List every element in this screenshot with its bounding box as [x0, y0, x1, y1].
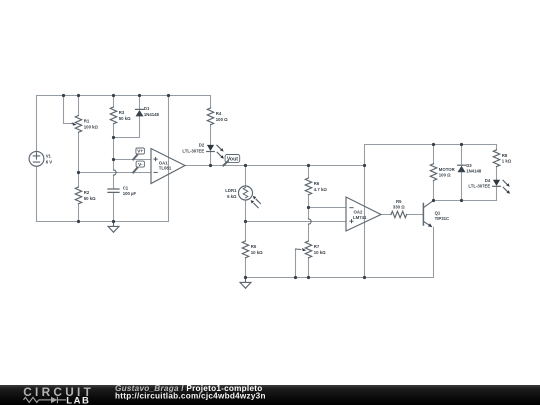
- resistor R5 10k: [242, 241, 248, 258]
- wire R3 leads: [113, 96, 115, 138]
- svg-text:1 kΩ: 1 kΩ: [502, 159, 512, 164]
- wire V1 column: [36, 96, 38, 222]
- svg-text:1N4148: 1N4148: [466, 169, 482, 174]
- wire OA2 power column: [364, 145, 366, 278]
- svg-text:Vout: Vout: [227, 157, 238, 163]
- potentiometer R1: [72, 116, 82, 133]
- svg-text:100 Ω: 100 Ω: [216, 117, 228, 122]
- wire column between R6 R7: [308, 208, 310, 242]
- svg-text:OA2: OA2: [354, 209, 363, 214]
- wire OA2 noninverting input: [246, 221, 347, 223]
- svg-text:100 µF: 100 µF: [123, 191, 137, 196]
- potentiometer R7: [296, 241, 312, 258]
- svg-text:LM741: LM741: [353, 215, 367, 220]
- footer bar: [0, 385, 540, 405]
- wire column above C1: [113, 160, 115, 190]
- wire R4 leads: [210, 96, 212, 145]
- motor MOTOR: [430, 164, 436, 181]
- wire Vout net: [185, 165, 365, 167]
- wire D1 leads: [114, 96, 140, 138]
- svg-text:LTL-307EE: LTL-307EE: [182, 148, 204, 153]
- wire OA1 noninverting input: [114, 159, 152, 161]
- wire D4 bottom lead: [496, 186, 498, 200]
- svg-text:R2: R2: [84, 190, 90, 195]
- svg-text:50 kΩ: 50 kΩ: [119, 116, 131, 121]
- svg-text:4.7 kΩ: 4.7 kΩ: [314, 187, 328, 192]
- svg-text:R3: R3: [119, 110, 125, 115]
- svg-text:R6: R6: [314, 181, 320, 186]
- wire R8 leads: [496, 145, 498, 180]
- svg-text:6 V: 6 V: [46, 159, 53, 164]
- svg-text:OA1: OA1: [159, 160, 168, 165]
- ground right: [240, 278, 251, 289]
- svg-text:100 kΩ: 100 kΩ: [84, 124, 99, 129]
- LED D2: [207, 145, 224, 159]
- wire R6 leads: [308, 166, 310, 208]
- svg-text:MOTOR: MOTOR: [439, 167, 456, 172]
- svg-text:TIP31C: TIP31C: [435, 216, 450, 221]
- wire C1 bottom lead: [113, 192, 115, 221]
- wire V- net: [79, 172, 152, 174]
- resistor R5 330: [391, 211, 407, 217]
- svg-text:V-: V-: [138, 162, 143, 167]
- wire hop over noninverting wire: [309, 219, 312, 224]
- diode D1: [136, 109, 144, 116]
- OA1 minus mark: [154, 171, 158, 173]
- wire bottom rail right: [246, 277, 434, 279]
- transistor Q1: [423, 201, 433, 228]
- logo doodle diode: [51, 397, 57, 403]
- net flag V-: [133, 161, 144, 172]
- svg-text:100 Ω: 100 Ω: [439, 173, 451, 178]
- svg-text:LTL-307EE: LTL-307EE: [468, 184, 490, 189]
- svg-text:LDR1: LDR1: [225, 188, 237, 193]
- wire R5 leads: [245, 222, 247, 278]
- svg-text:50 kΩ: 50 kΩ: [84, 196, 96, 201]
- svg-text:http://circuitlab.com/cjc4wbd4: http://circuitlab.com/cjc4wbd4wzy3n: [115, 392, 266, 401]
- ground left: [108, 222, 119, 233]
- net flag Vout: [223, 155, 239, 166]
- resistor R6: [305, 178, 311, 195]
- LED D4: [493, 180, 510, 194]
- svg-text:D4: D4: [485, 178, 491, 183]
- svg-text:R8: R8: [502, 153, 508, 158]
- logo doodle resistor: [24, 397, 67, 404]
- voltage source V1: [29, 151, 44, 166]
- wire hop over V- wire: [114, 170, 117, 175]
- net flag V+: [133, 148, 144, 160]
- wire LDR1 leads: [245, 166, 247, 222]
- wire top rail right: [365, 144, 497, 146]
- OA2 plus mark: [349, 219, 353, 223]
- svg-text:330 Ω: 330 Ω: [393, 205, 405, 210]
- wire R7 bottom lead: [308, 258, 310, 278]
- svg-text:D2: D2: [199, 143, 205, 148]
- svg-text:V1: V1: [46, 154, 52, 159]
- wire R1 wiper: [64, 96, 72, 124]
- resistor R8: [493, 150, 499, 167]
- svg-text:D3: D3: [466, 163, 472, 168]
- wire R5 330 leads: [381, 214, 423, 216]
- svg-text:D1: D1: [144, 106, 150, 111]
- svg-text:6 kΩ: 6 kΩ: [227, 194, 237, 199]
- svg-text:10 kΩ: 10 kΩ: [251, 250, 263, 255]
- svg-text:1N4148: 1N4148: [144, 112, 160, 117]
- op-amp OA2: [346, 197, 381, 231]
- svg-text:R5: R5: [396, 199, 402, 204]
- wire R7 wiper to rail: [295, 249, 297, 278]
- wire OA1 power column: [168, 96, 170, 222]
- wire Q1 emitter to rail: [433, 227, 435, 277]
- wire OA2 inverting input: [309, 207, 347, 209]
- resistor R4: [207, 108, 213, 125]
- svg-text:R4: R4: [216, 111, 222, 116]
- photoresistor LDR1: [239, 186, 261, 208]
- op-amp input polarity marks: [154, 157, 354, 223]
- op-amp OA1: [151, 149, 185, 184]
- svg-text:V+: V+: [137, 149, 143, 154]
- wire top rail left: [37, 95, 211, 97]
- svg-text:R1: R1: [84, 119, 90, 124]
- wire D3 leads: [461, 145, 463, 201]
- wire MOTOR leads: [433, 145, 435, 201]
- wire D2 bottom lead: [210, 152, 212, 166]
- wire R1 leads: [78, 96, 80, 173]
- wire node V+ column: [113, 138, 115, 160]
- svg-text:C1: C1: [123, 186, 129, 191]
- wire bottom rail left: [37, 221, 169, 223]
- wire R2 leads: [78, 173, 80, 222]
- svg-text:R5: R5: [251, 244, 257, 249]
- svg-text:LAB: LAB: [66, 395, 90, 405]
- svg-text:R7: R7: [314, 244, 320, 249]
- capacitor C1: [108, 189, 119, 192]
- OA1 plus mark: [154, 157, 158, 161]
- resistor R3: [110, 107, 116, 124]
- wire collector node: [434, 200, 497, 202]
- OA2 minus mark: [349, 207, 353, 209]
- svg-text:Q1: Q1: [435, 210, 441, 215]
- diode D3: [458, 165, 466, 172]
- resistor R2: [75, 187, 81, 204]
- svg-text:10 kΩ: 10 kΩ: [314, 250, 326, 255]
- svg-text:TL081: TL081: [159, 166, 172, 171]
